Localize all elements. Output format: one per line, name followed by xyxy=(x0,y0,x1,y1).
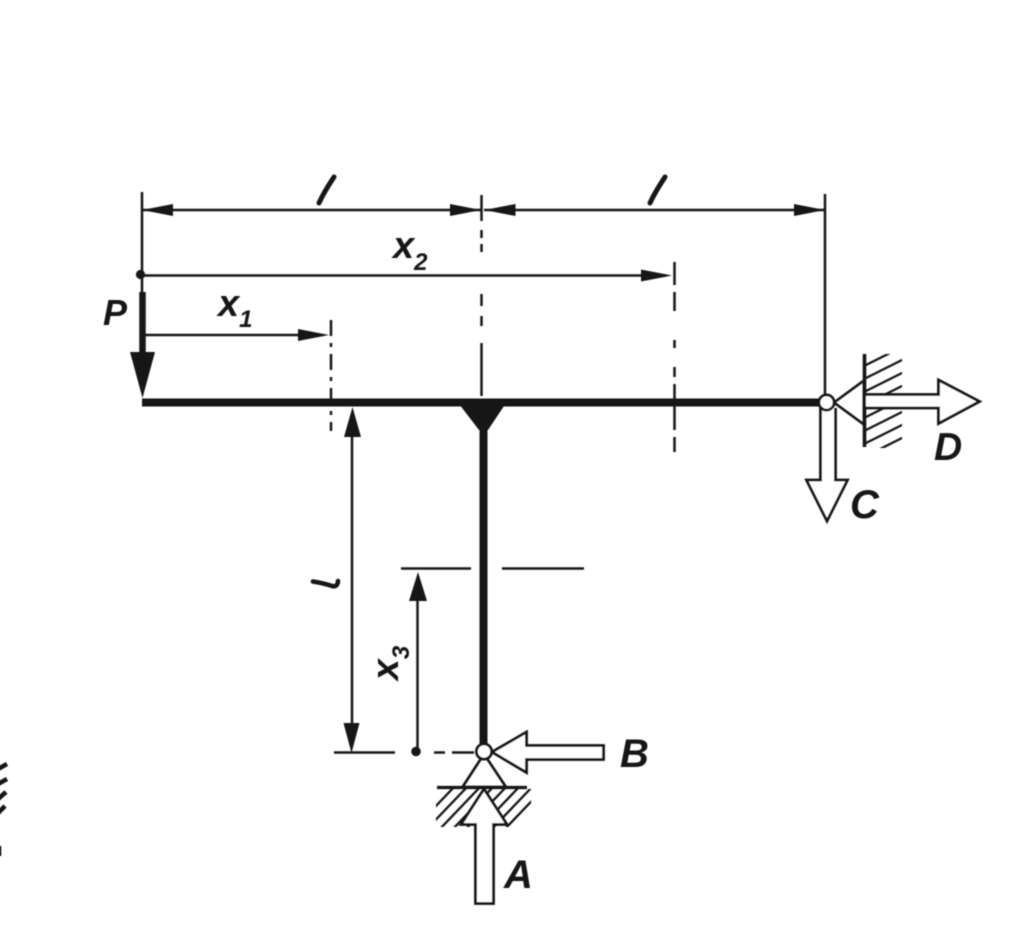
svg-text:B: B xyxy=(620,732,649,776)
svg-text:A: A xyxy=(503,853,533,897)
svg-text:C: C xyxy=(850,483,880,527)
svg-text:D: D xyxy=(934,426,962,469)
svg-text:P: P xyxy=(103,292,128,333)
